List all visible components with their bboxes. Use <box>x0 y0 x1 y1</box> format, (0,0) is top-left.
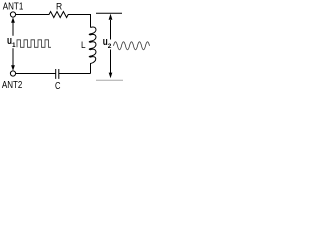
svg-text:R: R <box>56 1 62 12</box>
svg-text:ANT2: ANT2 <box>2 79 23 91</box>
svg-text:1: 1 <box>12 42 16 49</box>
svg-text:C: C <box>55 81 61 92</box>
svg-text:L: L <box>81 40 86 51</box>
svg-text:ANT1: ANT1 <box>3 1 24 13</box>
svg-text:2: 2 <box>108 43 112 50</box>
